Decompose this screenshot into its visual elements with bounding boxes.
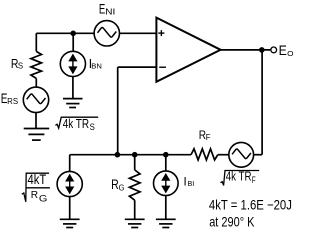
svg-text:F: F xyxy=(252,175,256,185)
wire I_BN to ground xyxy=(72,77,74,99)
svg-text:4k TR: 4k TR xyxy=(63,116,89,131)
noise source sqrt(4kTRF) xyxy=(229,142,254,167)
label sqrt(4kTRS) xyxy=(55,116,98,132)
wire op-amp minus input xyxy=(118,66,157,68)
node junction top of I_BN xyxy=(70,31,76,37)
svg-text:at 290° K: at 290° K xyxy=(209,214,255,229)
wire source to ground xyxy=(69,197,71,220)
current source I_BN xyxy=(60,51,85,76)
svg-text:F: F xyxy=(206,133,211,142)
noise source E_RS xyxy=(23,87,48,112)
svg-text:4k TR: 4k TR xyxy=(226,170,252,184)
current source I_BI xyxy=(154,171,179,196)
svg-text:O: O xyxy=(287,49,294,58)
label I_BN xyxy=(89,56,102,71)
bottom rail wire xyxy=(70,154,191,156)
svg-text:G: G xyxy=(39,193,48,203)
ground below R_G xyxy=(125,219,145,227)
resistor R_G xyxy=(129,155,140,220)
svg-text:S: S xyxy=(18,60,24,70)
label E_O xyxy=(279,43,294,58)
label sqrt(4kTRF) xyxy=(221,170,260,186)
wire E_RS to ground xyxy=(35,113,37,129)
label R_S xyxy=(11,56,24,71)
label sqrt(4kT/RG) fraction xyxy=(22,172,50,203)
resistor R_F xyxy=(191,149,218,160)
ground below I_BN xyxy=(63,99,83,108)
resistor R_S xyxy=(31,33,42,87)
wire inverting input down to bottom rail xyxy=(117,67,119,155)
label I_BI xyxy=(184,177,195,189)
node R_G branch xyxy=(132,152,138,158)
ground below I_BI xyxy=(156,219,176,227)
svg-text:E: E xyxy=(279,43,287,58)
svg-text:G: G xyxy=(119,182,125,192)
wire I_BI to ground xyxy=(165,196,167,220)
label E_NI xyxy=(99,2,115,18)
svg-text:BI: BI xyxy=(188,181,195,188)
wire R_F to noise source xyxy=(218,154,229,156)
ground below E_RS xyxy=(24,129,50,141)
svg-text:BN: BN xyxy=(91,62,102,71)
current source sqrt(4kT/RG) xyxy=(57,171,82,196)
svg-text:4kT = 1.6E −20J: 4kT = 1.6E −20J xyxy=(209,198,292,213)
node I_BI branch xyxy=(163,152,169,158)
label R_F xyxy=(199,128,211,142)
node bottom inverting branch xyxy=(115,152,121,158)
svg-text:I: I xyxy=(184,177,187,189)
wire down to I_BI xyxy=(165,155,167,171)
wire E_NI to op-amp plus input xyxy=(120,32,157,34)
svg-text:S: S xyxy=(90,122,95,132)
label R_G xyxy=(111,177,125,192)
wire noise source to output branch xyxy=(254,154,263,156)
svg-text:R: R xyxy=(31,190,39,201)
svg-text:4kT: 4kT xyxy=(28,172,47,188)
noise source E_NI xyxy=(94,21,119,46)
svg-text:NI: NI xyxy=(105,6,115,16)
label E_RS xyxy=(1,90,18,106)
wire top-left horizontal to E_NI xyxy=(36,32,94,34)
node output junction xyxy=(259,47,265,53)
output terminal circle xyxy=(271,47,277,53)
wire down to 4kT/RG source xyxy=(69,155,71,172)
wire junction to I_BN xyxy=(72,33,74,51)
ground below 4kT/RG source xyxy=(60,219,80,227)
wire op-amp output to node xyxy=(221,49,271,51)
svg-text:RS: RS xyxy=(7,97,18,106)
wire output node down to feedback xyxy=(261,50,263,155)
op-amp U1 xyxy=(156,18,220,82)
